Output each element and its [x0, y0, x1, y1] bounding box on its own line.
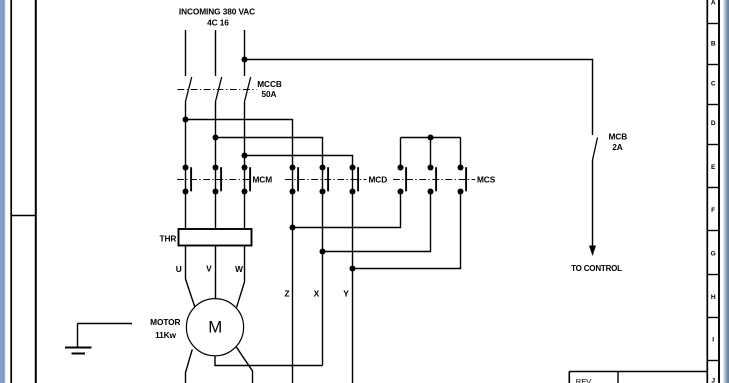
- wire L1 MCCB to THR: [185, 102, 187, 230]
- wire L2 incoming: [215, 30, 217, 76]
- node L1 branch: [183, 117, 189, 123]
- svg-text:M: M: [208, 318, 222, 337]
- wire MCS pole 1 to node Z: [293, 192, 401, 228]
- svg-text:W: W: [235, 264, 243, 274]
- svg-text:V: V: [206, 263, 212, 273]
- svg-text:D: D: [711, 120, 716, 127]
- contactor MCD: [285, 165, 387, 195]
- svg-text:MCD: MCD: [369, 175, 388, 185]
- svg-text:U: U: [176, 264, 182, 274]
- label incoming supply: [179, 7, 255, 28]
- node Z star tap: [290, 225, 296, 231]
- svg-text:11Kw: 11Kw: [155, 330, 176, 340]
- wire Y (MCD pole 3 down): [352, 168, 354, 383]
- svg-text:4C 16: 4C 16: [207, 18, 229, 28]
- wire X (MCD pole 2 down): [322, 168, 324, 366]
- wire L3 MCCB to THR: [244, 102, 246, 230]
- svg-text:C: C: [711, 81, 716, 88]
- svg-text:REV: REV: [576, 377, 591, 383]
- svg-text:2A: 2A: [612, 142, 623, 152]
- svg-text:TO CONTROL: TO CONTROL: [571, 264, 622, 273]
- terminal label Y: [343, 289, 349, 299]
- terminal label X: [314, 289, 320, 299]
- wire motor leg left: [186, 349, 193, 383]
- svg-text:MCCB: MCCB: [257, 79, 282, 89]
- svg-text:Y: Y: [343, 289, 349, 299]
- wire MCS pole 2 to node X: [323, 192, 431, 252]
- wire terminal V to motor: [215, 246, 217, 299]
- wire L3 incoming: [244, 30, 246, 76]
- terminal label U: [176, 264, 182, 274]
- motor M 11kW: [150, 299, 243, 356]
- wire L1 incoming: [185, 30, 187, 76]
- node X star tap: [320, 249, 326, 255]
- wire motor leg right: [236, 347, 252, 383]
- node L3 tap to control: [242, 57, 248, 63]
- thermal overload relay THR: [160, 229, 252, 246]
- wire terminal U to motor: [186, 246, 195, 307]
- contactor MCM: [177, 165, 272, 195]
- contactor MCS with star-point bar: [393, 135, 496, 195]
- svg-text:Z: Z: [285, 289, 290, 299]
- terminal label Z: [285, 289, 290, 299]
- wire L3 branch to MCD pole 3: [245, 156, 353, 168]
- wire L2 branch to MCD pole 2: [216, 138, 323, 168]
- terminal label V: [206, 263, 212, 273]
- wire Z (MCD pole 1 down): [292, 168, 294, 383]
- svg-text:MCS: MCS: [477, 175, 496, 185]
- svg-text:50A: 50A: [262, 89, 277, 99]
- wire terminal W to motor: [237, 246, 245, 308]
- terminal label W: [235, 264, 243, 274]
- wire motor bottom to X: [215, 356, 323, 366]
- node L3 branch: [242, 153, 248, 159]
- svg-text:B: B: [711, 41, 716, 48]
- wire L1 branch to MCD pole 1: [186, 120, 293, 168]
- svg-text:I: I: [712, 337, 714, 344]
- svg-text:A: A: [711, 0, 716, 7]
- wire and arrow to control circuit: [571, 160, 622, 273]
- svg-text:G: G: [711, 251, 716, 258]
- svg-text:THR: THR: [160, 234, 177, 244]
- svg-text:H: H: [711, 294, 716, 301]
- svg-text:INCOMING 380 VAC: INCOMING 380 VAC: [179, 7, 255, 17]
- svg-text:MCM: MCM: [253, 175, 273, 185]
- svg-text:J: J: [711, 378, 715, 383]
- svg-text:MCB: MCB: [608, 131, 627, 141]
- wire MCS pole 3 to node Y: [353, 192, 461, 269]
- circuit breaker MCCB 50A: [178, 77, 282, 102]
- svg-text:F: F: [711, 207, 715, 214]
- svg-text:X: X: [314, 289, 320, 299]
- circuit breaker MCB 2A: [593, 131, 628, 160]
- node Y star tap: [350, 266, 356, 272]
- node L2 branch: [213, 135, 219, 141]
- svg-text:E: E: [711, 164, 716, 171]
- wire L2 MCCB to THR: [215, 102, 217, 230]
- wire L3 tap to MCB 2A: [245, 60, 593, 136]
- ground symbol: [65, 324, 132, 354]
- svg-text:MOTOR: MOTOR: [150, 317, 180, 327]
